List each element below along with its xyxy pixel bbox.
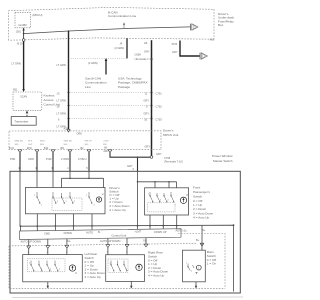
svg-text:1: 1 — [110, 263, 111, 265]
svg-text:+LMT: +LMT — [103, 141, 109, 143]
svg-text:GRY: GRY — [144, 98, 150, 102]
svg-text:SL-: SL- — [67, 239, 71, 243]
svg-text:1 = On: 1 = On — [207, 262, 217, 266]
svg-text:A28: A28 — [64, 127, 69, 131]
svg-text:1: 1 — [86, 195, 87, 197]
svg-text:EH2: EH2 — [27, 147, 32, 150]
svg-text:2: 2 — [168, 200, 169, 202]
svg-text:(2 GRN): (2 GRN) — [115, 46, 125, 50]
svg-text:H6: H6 — [144, 41, 148, 45]
svg-text:1: 1 — [29, 263, 30, 265]
svg-text:GRY: GRY — [144, 111, 150, 115]
svg-text:ALARM: ALARM — [18, 24, 26, 27]
svg-text:1: 1 — [186, 263, 187, 265]
svg-text:B+: B+ — [196, 238, 200, 242]
svg-text:C751: C751 — [156, 91, 163, 95]
svg-text:CMD: CMD — [44, 232, 50, 236]
svg-text:SW4 4B: SW4 4B — [15, 141, 24, 143]
svg-text:PUR: PUR — [46, 157, 52, 161]
svg-text:1: 1 — [67, 166, 69, 170]
svg-text:Keyless: Keyless — [44, 93, 55, 97]
svg-text:GRY: GRY — [145, 145, 151, 149]
svg-text:Communication Line: Communication Line — [108, 14, 136, 18]
svg-text:2: 2 — [107, 252, 108, 254]
svg-text:B+: B+ — [202, 228, 206, 232]
svg-text:Line: Line — [85, 85, 91, 89]
svg-text:B 10: B 10 — [17, 42, 23, 46]
svg-text:(Terminals 7-10): (Terminals 7-10) — [135, 57, 154, 61]
svg-text:ORN: ORN — [28, 157, 34, 161]
svg-text:Front: Front — [193, 186, 200, 190]
svg-text:3: 3 — [57, 201, 58, 203]
svg-text:1: 1 — [59, 269, 60, 271]
svg-text:5: 5 — [86, 166, 88, 170]
svg-text:13: 13 — [57, 91, 60, 95]
svg-text:SL-: SL- — [143, 238, 147, 242]
svg-text:6: 6 — [133, 168, 135, 171]
svg-text:C65A: C65A — [135, 52, 142, 56]
svg-text:GRY: GRY — [104, 150, 110, 153]
svg-text:X5 B: X5 B — [172, 42, 178, 46]
svg-text:Power Window: Power Window — [212, 154, 233, 158]
svg-text:LT GRN: LT GRN — [57, 98, 66, 102]
svg-text:2: 2 — [119, 269, 120, 271]
svg-text:10: 10 — [144, 117, 147, 121]
svg-text:SIG: SIG — [64, 144, 68, 146]
svg-text:B12: B12 — [44, 147, 49, 150]
svg-text:5: 5 — [126, 251, 127, 253]
svg-text:4 = Auto Up: 4 = Auto Up — [148, 274, 165, 278]
svg-text:4 = Auto Up: 4 = Auto Up — [193, 216, 210, 220]
svg-text:SW: SW — [103, 144, 107, 146]
svg-text:LT GRN: LT GRN — [57, 63, 66, 67]
svg-text:1: 1 — [126, 269, 127, 271]
svg-text:2: 2 — [191, 271, 192, 273]
svg-text:GRY: GRY — [156, 152, 162, 156]
svg-text:GRY: GRY — [172, 50, 178, 54]
svg-text:(MICU): (MICU) — [33, 13, 43, 17]
svg-text:Master Switch: Master Switch — [213, 159, 233, 163]
svg-text:Driver's: Driver's — [163, 129, 174, 133]
svg-text:J4: J4 — [120, 42, 123, 46]
svg-text:3: 3 — [160, 200, 161, 202]
svg-text:9: 9 — [146, 104, 148, 108]
svg-text:11: 11 — [145, 91, 148, 95]
svg-text:+LMT: +LMT — [135, 229, 142, 233]
svg-text:MPCS Unit: MPCS Unit — [163, 133, 178, 137]
svg-text:1: 1 — [34, 195, 35, 197]
svg-text:5: 5 — [47, 252, 48, 254]
svg-text:2: 2 — [94, 205, 95, 207]
svg-text:DOWN: DOWN — [64, 231, 72, 235]
svg-text:DOWN UP: DOWN UP — [154, 230, 167, 234]
svg-text:OUT: OUT — [28, 144, 33, 146]
svg-text:C753: C753 — [156, 117, 163, 121]
svg-text:SCAN: SCAN — [20, 96, 27, 99]
svg-text:RB: RB — [61, 147, 65, 150]
svg-text:SIG: SIG — [85, 144, 89, 146]
svg-text:B11: B11 — [13, 87, 18, 91]
svg-text:2: 2 — [66, 201, 67, 203]
svg-text:B-: B- — [98, 230, 101, 234]
svg-text:B 10: B 10 — [9, 147, 15, 150]
svg-text:4 = Auto Up: 4 = Auto Up — [85, 275, 102, 279]
svg-text:7: 7 — [66, 252, 67, 254]
svg-text:Transmitter: Transmitter — [14, 120, 28, 124]
svg-text:C752: C752 — [156, 104, 163, 108]
svg-text:(30): (30) — [16, 29, 21, 33]
svg-text:B2: B2 — [81, 147, 85, 150]
svg-text:X16: X16 — [210, 38, 215, 42]
svg-text:1: 1 — [198, 267, 200, 270]
svg-text:1: 1 — [74, 201, 75, 203]
svg-text:AUTO: AUTO — [86, 230, 93, 234]
svg-text:LT GRN: LT GRN — [12, 62, 21, 66]
svg-text:SW5 4B: SW5 4B — [64, 141, 73, 143]
svg-text:LT BLU: LT BLU — [78, 157, 87, 161]
svg-text:(2 GRN): (2 GRN) — [88, 61, 98, 65]
svg-text:Access: Access — [44, 98, 54, 102]
svg-text:Package: Package — [118, 85, 130, 89]
svg-text:C765: C765 — [164, 156, 171, 160]
svg-text:1: 1 — [148, 194, 149, 196]
svg-text:ORN: ORN — [77, 132, 83, 135]
svg-text:GRY: GRY — [144, 49, 150, 53]
svg-text:SIG: SIG — [40, 144, 44, 146]
svg-text:PNK: PNK — [10, 157, 16, 161]
svg-text:AUTO SL-: AUTO SL- — [176, 228, 188, 232]
svg-text:6: 6 — [58, 117, 60, 121]
svg-text:4 = Auto Up: 4 = Auto Up — [109, 208, 126, 212]
svg-text:2: 2 — [50, 269, 51, 271]
svg-text:Passenger's: Passenger's — [193, 190, 210, 194]
svg-text:1: 1 — [175, 205, 176, 207]
svg-text:PLS: PLS — [28, 141, 33, 143]
svg-text:2: 2 — [28, 252, 29, 254]
svg-text:SW OP: SW OP — [85, 141, 93, 143]
svg-text:2: 2 — [41, 205, 42, 207]
svg-text:SIG: SIG — [15, 144, 19, 146]
svg-text:AUTO UP DOWN: AUTO UP DOWN — [21, 239, 41, 243]
svg-text:2 ORN: 2 ORN — [61, 157, 69, 161]
svg-text:SW1: SW1 — [40, 141, 46, 143]
svg-text:AUTO UP DOWN: AUTO UP DOWN — [100, 239, 120, 243]
svg-text:3: 3 — [41, 269, 42, 271]
svg-text:3: 3 — [201, 248, 202, 250]
svg-text:Box: Box — [218, 23, 224, 27]
svg-text:Control Unit: Control Unit — [112, 233, 127, 237]
svg-text:LT GRN: LT GRN — [57, 111, 66, 115]
svg-text:(Terminals 7-10): (Terminals 7-10) — [164, 160, 183, 164]
